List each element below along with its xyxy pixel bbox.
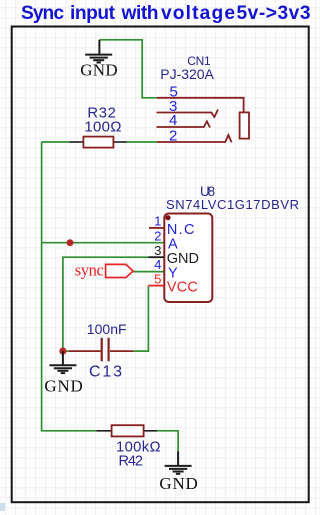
- svg-text:GND: GND: [80, 61, 117, 80]
- svg-text:5: 5: [154, 271, 161, 286]
- svg-text:with: with: [121, 3, 159, 24]
- svg-text:PJ-320A: PJ-320A: [160, 66, 214, 82]
- svg-text:4: 4: [154, 257, 161, 272]
- svg-text:input: input: [70, 3, 116, 24]
- svg-text:voltage: voltage: [161, 3, 235, 24]
- svg-text:R42: R42: [119, 453, 143, 469]
- svg-text:GND: GND: [44, 377, 82, 396]
- svg-text:2: 2: [169, 128, 177, 145]
- svg-text:VCC: VCC: [167, 280, 198, 296]
- svg-text:C13: C13: [89, 363, 122, 380]
- svg-text:GND: GND: [159, 474, 197, 493]
- svg-text:2: 2: [154, 228, 161, 243]
- svg-text:1: 1: [154, 214, 161, 229]
- svg-text:100nF: 100nF: [87, 321, 127, 337]
- svg-text:100Ω: 100Ω: [84, 118, 121, 135]
- svg-text:sync: sync: [75, 260, 104, 279]
- svg-text:Sync: Sync: [21, 3, 64, 24]
- svg-text:SN74LVC1G17DBVR: SN74LVC1G17DBVR: [166, 197, 299, 212]
- svg-text:5v->3v3: 5v->3v3: [237, 3, 311, 24]
- svg-text:N.C: N.C: [167, 222, 195, 238]
- svg-text:3: 3: [154, 243, 161, 258]
